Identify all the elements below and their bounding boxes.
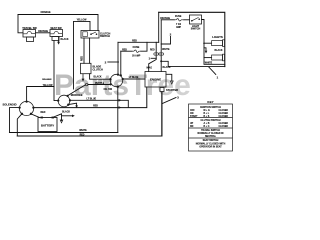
svg-text:ORANGE: ORANGE: [38, 30, 49, 33]
wire top vert to red line: [158, 12, 160, 42]
svg-text:B + S: B + S: [204, 116, 210, 118]
svg-text:PURPLE: PURPLE: [95, 83, 105, 85]
svg-text:20 AMP: 20 AMP: [132, 54, 141, 57]
wire left drop to travel switch: [18, 15, 23, 33]
battery ground arrow: [60, 120, 63, 123]
wire blade clutch to oil sw circle: [90, 74, 111, 80]
lamp 2: [212, 54, 225, 61]
svg-text:B + L: B + L: [204, 113, 210, 115]
svg-text:TRAVEL SW: TRAVEL SW: [22, 27, 37, 30]
engine ground arrow: [170, 81, 173, 84]
svg-text:SOLENOID: SOLENOID: [3, 102, 17, 106]
svg-text:NORMALLY CLOSED IN: NORMALLY CLOSED IN: [198, 132, 224, 135]
svg-text:BLACK: BLACK: [94, 76, 102, 79]
travel switch box: [23, 30, 36, 42]
svg-text:CLOSED: CLOSED: [219, 116, 229, 118]
wire fuse left lead: [121, 50, 132, 52]
battery box: [38, 118, 57, 132]
junction dot lamp1: [203, 42, 205, 44]
svg-text:M + G: M + G: [204, 110, 211, 112]
connector pair red: [154, 51, 159, 57]
svg-text:CLOSED: CLOSED: [219, 113, 229, 115]
fuse 2 symbol: [174, 19, 184, 21]
wire white vertical: [160, 20, 162, 53]
lamp 1: [212, 40, 225, 47]
svg-text:MODULE: MODULE: [71, 93, 83, 97]
svg-text:ON: ON: [190, 113, 194, 115]
svg-text:YELLOW: YELLOW: [43, 85, 54, 87]
clutch switch box: [81, 31, 99, 39]
wire seat switch to module: [54, 41, 58, 101]
wire module down arrow lead: [68, 103, 76, 106]
wire solenoid left loop: [10, 108, 20, 133]
module circle: [57, 95, 71, 107]
svg-text:RED: RED: [93, 106, 98, 108]
svg-text:ORANGE: ORANGE: [40, 11, 51, 14]
battery ground stub arrow: [72, 115, 75, 118]
callout 3 leader: [162, 98, 176, 104]
wire fuse right lead: [141, 42, 147, 51]
wire mag path: [149, 55, 157, 71]
svg-text:RED: RED: [41, 112, 46, 114]
wire solenoid lower-left to outer loop: [17, 114, 22, 136]
svg-text:NORMALLY CLOSED WITH: NORMALLY CLOSED WITH: [196, 142, 226, 145]
wire engine ground stub: [166, 74, 172, 81]
wire red connector drop: [155, 42, 157, 52]
purple connector open circle: [85, 83, 87, 85]
wire oil circle to engine lt blue: [123, 78, 145, 80]
wire module diagonal to connector: [68, 85, 86, 96]
wire battery ground stub: [62, 115, 73, 117]
svg-text:OFF: OFF: [190, 110, 195, 112]
callout 2 leader: [161, 37, 170, 45]
wire fuse feed top red: [118, 41, 159, 43]
svg-text:ENGINE: ENGINE: [150, 78, 161, 82]
wire oil circle top 1: [117, 42, 119, 74]
wire white return from lights: [161, 61, 225, 66]
svg-text:SEAT SWITCH: SEAT SWITCH: [203, 139, 219, 142]
wire starter down: [161, 92, 163, 137]
svg-text:RED: RED: [150, 50, 155, 52]
svg-text:RED: RED: [80, 56, 83, 61]
svg-text:RED: RED: [122, 49, 127, 51]
red line flow arrow: [119, 106, 122, 109]
svg-text:DN: DN: [190, 126, 194, 128]
svg-text:WHITE: WHITE: [205, 63, 213, 65]
wire lamp ground stub: [204, 48, 206, 51]
svg-text:LT BLUE: LT BLUE: [87, 99, 97, 101]
svg-text:BLACK: BLACK: [163, 66, 171, 69]
svg-text:YELLOW: YELLOW: [77, 20, 88, 22]
module down arrow: [75, 105, 78, 108]
wire lights top feed: [159, 12, 225, 66]
svg-text:IGNITION SWITCH: IGNITION SWITCH: [200, 106, 221, 109]
svg-text:CLUTCH: CLUTCH: [93, 68, 103, 71]
svg-text:MAG: MAG: [147, 66, 153, 69]
wire lamp2 feed: [204, 57, 212, 59]
svg-text:A + B: A + B: [204, 122, 210, 125]
svg-text:WHITE: WHITE: [79, 130, 87, 132]
blade clutch ground arrow: [82, 74, 85, 82]
wire lt blue module to red line: [70, 100, 128, 107]
engine box: [145, 72, 166, 88]
svg-text:CLUTCH SWITCH: CLUTCH SWITCH: [201, 119, 221, 122]
wire battery negative: [53, 114, 62, 121]
svg-text:NEUTRAL: NEUTRAL: [205, 135, 217, 138]
wire black to engine: [160, 55, 162, 71]
callout 2 leader oil: [108, 61, 119, 63]
wire lamp1 feed: [204, 42, 212, 44]
lt blue flow arrow: [119, 99, 122, 102]
svg-text:CLOSED: CLOSED: [219, 126, 229, 128]
svg-text:RED: RED: [80, 135, 85, 137]
starter terminal box: [160, 88, 164, 92]
wire red outer bottom loop: [17, 92, 162, 137]
wire yellow to solenoid: [27, 87, 54, 102]
wire red long solenoid to engine: [34, 87, 147, 108]
wire solenoid to battery: [31, 114, 40, 118]
light switch box: [190, 15, 202, 24]
svg-text:KEY: KEY: [207, 100, 213, 104]
connector pair white: [159, 51, 164, 57]
svg-text:AMP: AMP: [176, 26, 182, 29]
wire clutch switch down 1: [83, 38, 85, 63]
svg-text:STARTER: STARTER: [166, 88, 178, 92]
svg-text:CLOSED: CLOSED: [219, 110, 229, 112]
svg-text:SEAT SW: SEAT SW: [50, 27, 62, 30]
svg-text:ORANGE: ORANGE: [42, 78, 52, 81]
seat switch ground arrow: [57, 42, 60, 45]
wire oil sw circle bottom return: [117, 87, 119, 133]
fuse 1 symbol: [132, 50, 141, 52]
svg-text:B + C: B + C: [204, 126, 210, 128]
wire clutch switch down 2: [89, 38, 91, 63]
svg-text:LT BLUE: LT BLUE: [129, 77, 139, 79]
svg-text:RED: RED: [132, 40, 137, 42]
svg-text:FUSE: FUSE: [133, 46, 140, 49]
lamp ground arrow: [205, 51, 208, 54]
wire fuse2 to light switch: [184, 19, 190, 21]
wire white inner bottom loop: [10, 132, 118, 134]
callout 1 leader ignition: [151, 57, 156, 59]
key table: [189, 104, 233, 151]
callout 1 leader lights: [209, 67, 216, 75]
wire fuse to oil circle top 2: [120, 51, 122, 75]
svg-text:FUSE: FUSE: [175, 15, 182, 18]
svg-text:START: START: [190, 115, 198, 118]
wire seat switch black ground lead: [58, 37, 60, 42]
svg-text:BLACK: BLACK: [62, 111, 70, 114]
junction dot black/white: [160, 60, 162, 62]
wire orange between switches: [36, 32, 51, 34]
svg-text:ORANGE: ORANGE: [160, 17, 171, 20]
wire orange top: [18, 15, 98, 31]
svg-text:OIL SW: OIL SW: [104, 88, 113, 91]
wire light fuse lead: [161, 19, 174, 21]
svg-text:TRAVEL SWITCH: TRAVEL SWITCH: [201, 129, 220, 132]
svg-text:BLACK: BLACK: [215, 49, 223, 52]
oil sw circle: [109, 73, 124, 87]
svg-text:BLACK: BLACK: [61, 38, 69, 41]
svg-text:WHITE: WHITE: [162, 49, 170, 51]
svg-text:SWITCH: SWITCH: [191, 28, 201, 31]
wire light switch to lamps: [202, 20, 225, 65]
wire purple connector line: [88, 84, 110, 86]
svg-text:OPERATOR IN SEAT: OPERATOR IN SEAT: [199, 146, 222, 149]
wire yellow top: [74, 21, 91, 89]
solenoid circle: [18, 100, 34, 115]
svg-text:BATTERY: BATTERY: [41, 124, 54, 128]
svg-text:CLOSED: CLOSED: [219, 123, 229, 125]
svg-text:LIGHTS: LIGHTS: [212, 35, 223, 39]
svg-text:UP: UP: [190, 123, 194, 125]
blade clutch box: [81, 63, 92, 73]
seat switch box: [50, 30, 63, 41]
svg-text:SWITCH: SWITCH: [100, 35, 110, 38]
